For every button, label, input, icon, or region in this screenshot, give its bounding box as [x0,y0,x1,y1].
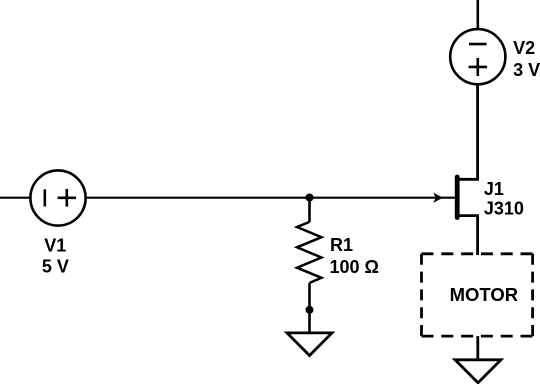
node at R1 bottom [306,306,314,314]
wire from left edge to V1 [0,197,31,199]
wire motor to ground [476,336,479,360]
voltage source V1 [30,170,85,225]
svg-text:5 V: 5 V [42,257,69,277]
node junction at R1 top [306,194,314,202]
voltage source V2 [450,29,505,84]
svg-text:MOTOR: MOTOR [450,284,519,305]
svg-text:J310: J310 [484,199,524,219]
wire JFET drain to V2 [476,85,479,180]
svg-text:J1: J1 [484,179,504,199]
wire V2 to top edge [476,0,479,29]
ground below motor [455,360,501,383]
wire JFET source to motor [476,216,479,255]
ground below R1 [287,333,332,356]
svg-text:V2: V2 [513,38,535,58]
wire junction to R1 [308,198,311,222]
svg-text:100 Ω: 100 Ω [330,257,379,277]
wire R1 to ground [308,283,311,333]
wire V1 to JFET gate [85,197,456,199]
resistor R1 [297,222,322,283]
svg-text:R1: R1 [330,235,353,255]
motor box [422,254,533,336]
gate arrowhead [433,193,443,203]
transistor J1 [457,177,479,218]
svg-text:V1: V1 [44,236,66,256]
svg-text:3 V: 3 V [513,60,540,80]
